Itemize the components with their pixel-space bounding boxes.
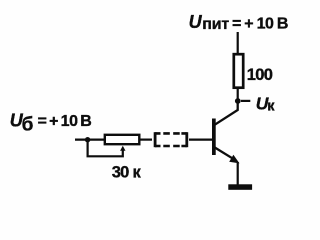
svg-text:100: 100 [247, 66, 273, 84]
svg-text:б: б [22, 115, 34, 136]
svg-text:= + 10 В: = + 10 В [38, 113, 92, 130]
dashed coupling box [155, 132, 187, 147]
svg-text:= + 10 В: = + 10 В [232, 16, 288, 33]
potentiometer wiper arrow [120, 146, 125, 151]
wire base feed [75, 139, 104, 141]
label Uб = +10 В (base voltage) [10, 110, 92, 135]
transistor Q1 base bar [212, 119, 216, 156]
potentiometer R2 body 30k [105, 135, 140, 144]
wire wiper loop [88, 140, 123, 157]
wire pot to coupling box [140, 139, 152, 141]
transistor Q1 emitter with arrow [215, 148, 240, 164]
svg-text:к: к [267, 99, 275, 115]
node A divider junction dot [85, 137, 90, 142]
label Uк (collector voltage) [256, 94, 276, 115]
ground bar [228, 184, 252, 190]
wire collector [215, 101, 238, 125]
resistor R1 body (collector load) [234, 54, 243, 87]
wire resistor to collector node [237, 88, 239, 101]
label Uпит = +10 В (supply voltage) [189, 12, 288, 33]
svg-text:U: U [189, 12, 203, 32]
wire supply vertical [237, 32, 239, 54]
svg-text:пит: пит [202, 16, 229, 33]
wire emitter to ground [237, 162, 239, 185]
tick wire to Uк label [241, 100, 250, 102]
wire base lead [189, 139, 212, 141]
svg-text:30 к: 30 к [112, 163, 142, 181]
node K collector junction dot [235, 98, 241, 104]
